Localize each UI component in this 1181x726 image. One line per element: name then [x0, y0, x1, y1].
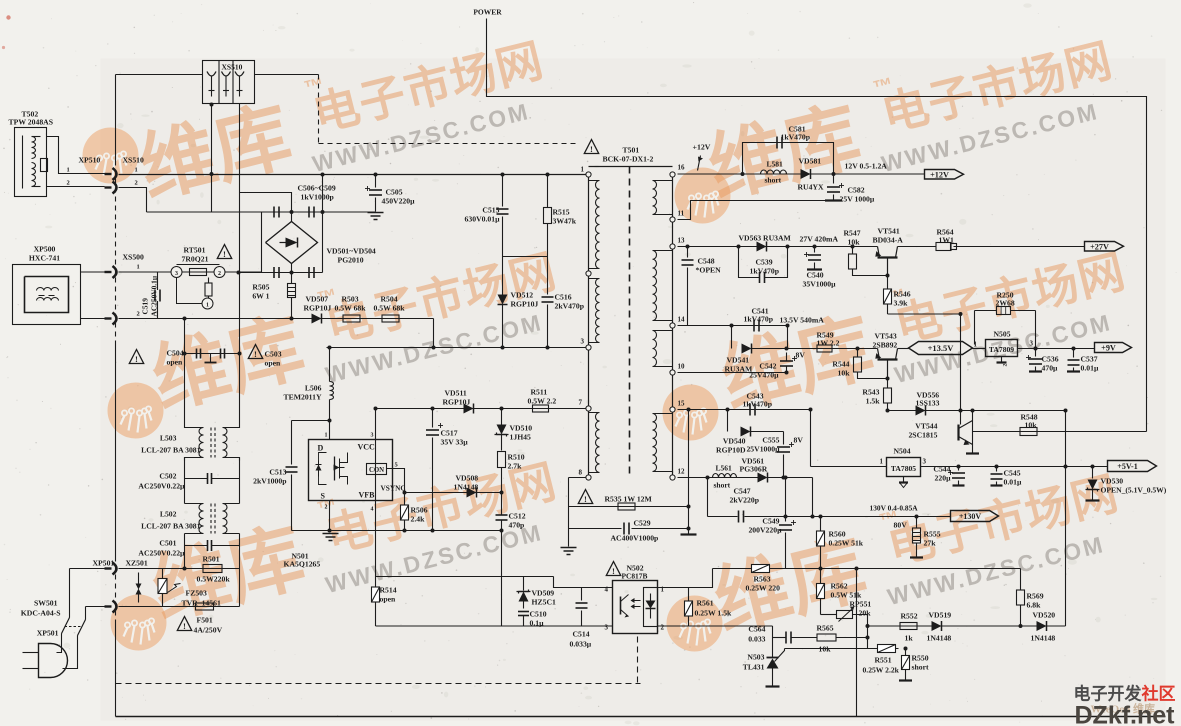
wire fb step [554, 577, 613, 588]
wire left rail bottom [115, 620, 117, 717]
svg-text:1kV1000p: 1kV1000p [301, 193, 334, 202]
svg-text:12: 12 [678, 468, 686, 476]
wire ref rail [785, 648, 899, 650]
wire VD540 branch [727, 410, 729, 432]
wire dashed N502 drop [637, 637, 639, 684]
resistor R511 [528, 388, 557, 413]
wire T502 pin2 to XP510 [47, 186, 105, 188]
capacitor C555 [746, 432, 794, 478]
svg-text:C512: C512 [509, 512, 526, 521]
svg-text:R551: R551 [875, 656, 892, 665]
capacitor C581 branch [741, 143, 834, 177]
wire T502 pin1 to XP510 [47, 137, 105, 174]
capacitor C548 [682, 245, 722, 326]
svg-text:电子开发: 电子开发 [1074, 684, 1143, 704]
svg-text:L503: L503 [160, 434, 177, 443]
svg-text:R511: R511 [531, 388, 548, 397]
svg-text:R535 1W 12M: R535 1W 12M [605, 495, 653, 504]
transformer T501 primary rail [588, 175, 590, 478]
diode VD563 [739, 234, 792, 252]
resistor R549 [817, 331, 840, 353]
svg-text:27k: 27k [924, 539, 937, 548]
svg-text:+13.5V: +13.5V [928, 343, 955, 353]
wire fb box top [376, 576, 554, 578]
label +12V net [693, 143, 711, 171]
svg-text:6.8k: 6.8k [1027, 601, 1042, 610]
svg-text:3: 3 [923, 458, 927, 466]
svg-text:FZ503: FZ503 [186, 589, 208, 598]
capacitor C510 [518, 610, 547, 628]
svg-text:2: 2 [218, 271, 221, 277]
capacitor C544 [933, 465, 965, 486]
label XP501 [93, 559, 115, 568]
wire X-cap bottom row [237, 271, 323, 275]
svg-text:0.5W220k: 0.5W220k [197, 575, 231, 584]
svg-text:C549: C549 [762, 517, 779, 526]
diode VD540 [716, 427, 783, 455]
wire neutral fused [119, 606, 240, 608]
wire left rail dashed connector zone [115, 161, 117, 346]
resistor R565 [817, 624, 870, 654]
wire neutral hat [240, 193, 292, 213]
svg-text:KA5Q1265: KA5Q1265 [284, 560, 321, 569]
svg-text:N503: N503 [747, 653, 764, 662]
svg-text:VT544: VT544 [915, 422, 937, 431]
svg-text:open: open [167, 358, 184, 367]
fuse F501 [194, 603, 223, 635]
svg-text:25V 1000µ: 25V 1000µ [840, 195, 875, 204]
label HXC-741 [29, 254, 60, 263]
svg-text:F501: F501 [197, 616, 213, 625]
transformer T501 secondary rail [672, 175, 674, 478]
svg-text:KDC-A04-S: KDC-A04-S [21, 609, 61, 618]
svg-text:AC400V1000p: AC400V1000p [611, 534, 659, 543]
svg-text:450V220µ: 450V220µ [382, 197, 416, 206]
wire gate bus [376, 408, 589, 410]
svg-text:13.5V 540mA: 13.5V 540mA [780, 316, 825, 325]
svg-text:BD034-A: BD034-A [873, 236, 904, 245]
warning triangle N502 [606, 562, 620, 576]
svg-text:VD530: VD530 [1101, 477, 1124, 486]
wire R504 down [433, 319, 435, 348]
svg-text:1: 1 [325, 433, 328, 439]
svg-text:C555: C555 [762, 436, 779, 445]
svg-text:0.5W 51k: 0.5W 51k [831, 591, 862, 600]
svg-text:0.1µ: 0.1µ [530, 619, 545, 628]
node pin10 [670, 363, 685, 376]
wire pin11 return [678, 201, 826, 220]
flag +130V [951, 511, 999, 522]
watermarks (decorative) [83, 21, 1139, 651]
svg-text:C548: C548 [698, 257, 715, 266]
wire vt544 base stub [972, 421, 974, 445]
svg-text:2kV1000p: 2kV1000p [253, 477, 286, 486]
svg-text:2: 2 [135, 180, 138, 187]
connector XP501-XZ501 live [105, 563, 117, 575]
svg-text:VD512: VD512 [511, 291, 534, 300]
svg-text:3: 3 [1030, 340, 1034, 348]
svg-text:2: 2 [661, 624, 665, 632]
flag +27V [1085, 242, 1124, 252]
capacitor C514 [570, 588, 592, 649]
svg-text:L506: L506 [305, 384, 322, 393]
wire snub column [681, 408, 697, 535]
resistor R547 [844, 229, 888, 276]
svg-text:6W 1: 6W 1 [252, 292, 269, 301]
svg-text:12V 0.5-1.2A: 12V 0.5-1.2A [845, 162, 888, 171]
wire N505 out [1018, 340, 1095, 351]
resistor R555 [910, 515, 941, 558]
svg-text:0.25W 1.5k: 0.25W 1.5k [695, 609, 733, 618]
svg-text:VD541: VD541 [727, 356, 750, 365]
label 12V current [845, 162, 888, 171]
wire neutral to connector [81, 318, 105, 320]
svg-text:0.25W 2.2k: 0.25W 2.2k [863, 666, 900, 675]
svg-text:2: 2 [137, 311, 140, 318]
connector XP500 [13, 245, 81, 325]
wire neutral from XS510 [119, 188, 147, 213]
svg-text:1: 1 [67, 167, 70, 174]
svg-text:2.4k: 2.4k [411, 515, 426, 524]
svg-text:LCL-207 BA 3081: LCL-207 BA 3081 [141, 446, 201, 455]
svg-text:C519: C519 [141, 298, 150, 315]
svg-text:1JH45: 1JH45 [510, 433, 532, 442]
svg-text:1: 1 [880, 458, 884, 466]
svg-text:short: short [912, 663, 930, 672]
wire left rail mid [115, 346, 117, 557]
inductor L581 [761, 160, 787, 185]
choke L503 [141, 426, 239, 461]
capacitor C547 [739, 511, 744, 523]
wire feedback column [501, 531, 503, 626]
svg-text:35V 33µ: 35V 33µ [441, 438, 469, 447]
capacitor C540 [803, 245, 837, 289]
wire sense rail [713, 567, 1021, 571]
wire 130V rail [811, 515, 951, 519]
transformer T501 primary winding A [589, 181, 600, 269]
svg-text:short: short [765, 176, 782, 185]
wire to 27V flag [898, 246, 1085, 248]
resistor R503 [335, 295, 367, 323]
svg-text:AC250V0.22µ: AC250V0.22µ [138, 549, 185, 558]
resistor R515 [544, 173, 577, 257]
svg-text:2kV220p: 2kV220p [730, 496, 759, 505]
svg-text:RGP10J: RGP10J [443, 398, 471, 407]
flag +13.5V [909, 342, 973, 355]
svg-text:CON: CON [369, 467, 384, 474]
label C503 open [265, 350, 282, 368]
svg-text:VD520: VD520 [1033, 611, 1056, 620]
svg-text:RU4YX: RU4YX [798, 183, 824, 192]
wire XS510 right to dashed [255, 74, 319, 76]
svg-text:10: 10 [678, 363, 686, 371]
svg-text:11: 11 [678, 210, 685, 218]
wire 130V column [812, 478, 814, 517]
svg-text:2SB892: 2SB892 [873, 341, 898, 350]
label XP510 [79, 156, 101, 165]
transformer T501 aux winding [589, 413, 600, 473]
wire pin16 out [678, 173, 925, 175]
inductor L506 [283, 346, 333, 440]
resistor R569 [1017, 569, 1044, 627]
node pin12 [670, 468, 685, 481]
svg-text:2: 2 [325, 505, 328, 511]
wire n504 in [811, 466, 887, 468]
svg-text:C545: C545 [1004, 469, 1021, 478]
svg-text:1.5k: 1.5k [866, 397, 881, 406]
wire CON pin5 [387, 469, 405, 493]
capacitor C506 [274, 207, 279, 218]
svg-text:R515: R515 [553, 208, 570, 217]
wire left rail top [115, 75, 117, 161]
resistor R550 [899, 647, 929, 681]
wire 10k feedback [886, 409, 1066, 413]
svg-text:XP501: XP501 [37, 629, 59, 638]
svg-text:2: 2 [67, 180, 70, 187]
svg-text:!: ! [183, 621, 186, 631]
svg-text:TA7805: TA7805 [891, 464, 916, 473]
svg-text:14: 14 [678, 316, 686, 324]
svg-text:HZ5C1: HZ5C1 [532, 598, 557, 607]
svg-text:R544: R544 [832, 360, 849, 369]
zener VD509 [517, 577, 557, 609]
flag +9V [1095, 343, 1132, 353]
wire live fused [119, 567, 240, 571]
wire ground rail [292, 529, 502, 533]
svg-text:!: ! [223, 249, 226, 259]
wire filter left rail [183, 317, 187, 426]
wire pin8 left [569, 477, 586, 479]
diode VD519 [927, 611, 952, 643]
wire switch to conn live [70, 568, 105, 570]
warning triangle pin8 [578, 490, 592, 504]
diode VD510 [495, 407, 533, 451]
wire 8V rail [752, 324, 878, 351]
capacitor C509 [309, 267, 314, 278]
wire filter rails low [185, 534, 240, 607]
svg-text:R501: R501 [203, 555, 220, 564]
node pin11 [670, 210, 685, 223]
label XZ501 [126, 559, 148, 568]
svg-text:0.5W 68k: 0.5W 68k [335, 304, 367, 313]
svg-text:RGP10J: RGP10J [304, 304, 332, 313]
label C506~C509 [298, 184, 336, 202]
svg-text:RP551: RP551 [850, 600, 872, 609]
svg-text:27V 420mA: 27V 420mA [800, 235, 839, 244]
svg-text:open: open [265, 359, 282, 368]
svg-text:VT543: VT543 [875, 332, 897, 341]
wire top to XS510 [116, 74, 203, 76]
resistor R552 [900, 612, 918, 643]
resistor R551 [863, 645, 900, 675]
choke L502 [141, 504, 239, 534]
capacitor C512 [496, 493, 526, 533]
svg-text:15: 15 [678, 400, 686, 408]
svg-text:0.033: 0.033 [748, 635, 765, 644]
resistor R564 [936, 228, 957, 251]
svg-text:R546: R546 [894, 290, 911, 299]
svg-text:R504: R504 [381, 295, 398, 304]
svg-text:3: 3 [175, 271, 178, 277]
svg-text:0.25W 220: 0.25W 220 [746, 584, 781, 593]
svg-text:T501: T501 [623, 146, 640, 155]
svg-text:0.01µ: 0.01µ [1004, 478, 1022, 487]
diode VD508 [403, 474, 504, 498]
diode VD561 [740, 457, 768, 483]
svg-text:VD507: VD507 [306, 295, 329, 304]
svg-text:1W1: 1W1 [939, 236, 955, 245]
svg-text:VD501~VD504: VD501~VD504 [327, 247, 376, 256]
svg-text:3: 3 [605, 624, 609, 632]
wire DC minus [290, 317, 434, 321]
label 27V [800, 235, 839, 244]
label 13.5V [780, 316, 825, 325]
svg-text:C501: C501 [159, 539, 176, 548]
connector XP500-XS500 pair [105, 264, 140, 325]
wire XS510 pin to DC bus [210, 103, 214, 213]
svg-text:R560: R560 [829, 530, 846, 539]
ground pin8 [561, 548, 577, 555]
svg-text:1N4148: 1N4148 [1031, 634, 1056, 643]
diode VD541 [725, 344, 753, 374]
svg-text:XS510: XS510 [222, 63, 243, 72]
diode VD511 [443, 389, 474, 414]
resistor R504 [374, 295, 406, 323]
ground N504 [899, 477, 908, 488]
capacitor C504a [197, 349, 201, 359]
wire bridge right leg [321, 173, 325, 273]
label pin7 [579, 399, 583, 407]
svg-text:PG306R: PG306R [740, 465, 768, 474]
transistor VT541 [873, 227, 904, 276]
wire opto out bottom [658, 625, 773, 627]
wire VCC stub [374, 407, 378, 440]
svg-text:VD540: VD540 [723, 437, 746, 446]
svg-text:+12V: +12V [693, 143, 711, 152]
diode VD581 [798, 157, 824, 192]
capacitor C515 [465, 173, 509, 257]
svg-text:R514: R514 [380, 586, 397, 595]
wire fb up column [1064, 409, 1068, 627]
svg-text:XP510: XP510 [79, 156, 101, 165]
svg-text:1kV470p: 1kV470p [744, 315, 773, 324]
svg-text:!: ! [135, 354, 138, 364]
svg-text:S: S [321, 492, 326, 501]
svg-text:470p: 470p [509, 521, 525, 530]
wire opto out top [658, 569, 713, 588]
label XP501 plug [37, 629, 59, 638]
zener VD530 [1086, 467, 1167, 501]
resistor R560 [817, 517, 864, 569]
svg-text:C542: C542 [759, 362, 776, 371]
svg-text:+130V: +130V [959, 512, 982, 521]
svg-text:VD508: VD508 [456, 474, 479, 483]
svg-text:VD581: VD581 [799, 157, 822, 166]
wire dashed drop [318, 75, 320, 144]
svg-text:N505: N505 [994, 330, 1011, 339]
label XS500 [123, 253, 145, 262]
svg-text:C544: C544 [933, 465, 950, 474]
wire box right vertical [856, 569, 858, 717]
svg-text:R569: R569 [1027, 592, 1044, 601]
connector XP510-XS510 pair pin2 [67, 180, 138, 194]
svg-text:R565: R565 [817, 624, 834, 633]
ic N505 [986, 330, 1018, 357]
connector XS510 [203, 61, 255, 104]
svg-text:VSYNC: VSYNC [381, 484, 406, 493]
node pin14 [670, 316, 685, 329]
svg-text:RGP10D: RGP10D [716, 446, 746, 455]
wire VFB pin down [375, 440, 377, 577]
svg-text:2SC1815: 2SC1815 [908, 431, 937, 440]
wire main DC bus [119, 174, 589, 176]
label C504 open [167, 349, 184, 367]
svg-text:0.01µ: 0.01µ [1081, 364, 1099, 373]
svg-text:7: 7 [579, 399, 583, 407]
svg-text:3: 3 [581, 338, 585, 346]
transformer T501 sec winding 16-11 [653, 181, 673, 215]
svg-text:!: ! [254, 349, 257, 359]
svg-text:1kV470p: 1kV470p [750, 267, 779, 276]
svg-text:R505: R505 [252, 283, 269, 292]
svg-text:C505: C505 [386, 188, 403, 197]
node pin16 [670, 164, 685, 178]
wire C504 row [185, 352, 242, 356]
connector XP501-XZ501 neutral [105, 601, 117, 613]
node pin7 [586, 406, 591, 411]
label N501 [284, 552, 321, 569]
inductor L561 [713, 464, 737, 490]
svg-text:N504: N504 [894, 447, 911, 456]
svg-text:L581: L581 [767, 160, 784, 169]
svg-text:200V220µ: 200V220µ [748, 526, 782, 535]
label N505 pin1 [974, 341, 978, 349]
capacitor C539 loop [737, 245, 790, 284]
svg-text:XS510: XS510 [123, 156, 145, 165]
svg-text:*OPEN: *OPEN [696, 266, 722, 275]
svg-text:AC250V0.22µ: AC250V0.22µ [138, 482, 185, 491]
svg-text:short: short [714, 481, 731, 490]
svg-text:16: 16 [678, 164, 686, 172]
svg-text:VD509: VD509 [532, 589, 555, 598]
svg-text:XP501: XP501 [93, 559, 115, 568]
svg-text:10k: 10k [1025, 421, 1038, 430]
svg-text:C582: C582 [848, 186, 865, 195]
svg-text:1: 1 [137, 264, 140, 271]
capacitor C529 [569, 519, 689, 543]
svg-text:VD519: VD519 [929, 611, 952, 620]
wire dashed standby boundary [116, 683, 641, 685]
svg-text:13: 13 [678, 237, 686, 245]
svg-text:TL431: TL431 [743, 663, 765, 672]
svg-text:!: ! [612, 566, 615, 576]
svg-text:4: 4 [371, 507, 374, 513]
wire neutral rail down [239, 104, 241, 426]
svg-text:!: ! [584, 494, 587, 504]
svg-text:0.5W 68k: 0.5W 68k [374, 304, 406, 313]
svg-text:C506~C509: C506~C509 [298, 184, 336, 193]
ic N504 [880, 447, 927, 477]
warning triangle RT501 [217, 245, 231, 259]
svg-text:RT501: RT501 [184, 246, 206, 255]
svg-text:C510: C510 [530, 610, 547, 619]
svg-text:HXC-741: HXC-741 [29, 254, 60, 263]
svg-text:BCK-07-DX1-2: BCK-07-DX1-2 [603, 155, 654, 164]
node pin15 [670, 400, 685, 413]
svg-text:3: 3 [371, 433, 374, 439]
svg-text:35V1000µ: 35V1000µ [803, 280, 837, 289]
svg-text:1: 1 [581, 166, 585, 174]
